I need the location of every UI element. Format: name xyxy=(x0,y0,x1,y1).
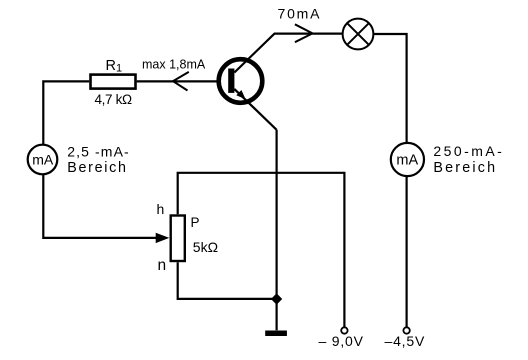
svg-text:4,7 kΩ: 4,7 kΩ xyxy=(95,92,133,107)
svg-text:5kΩ: 5kΩ xyxy=(193,239,218,255)
svg-text:max 1,8mA: max 1,8mA xyxy=(142,57,206,71)
svg-text:Bereich: Bereich xyxy=(67,160,127,176)
svg-text:P: P xyxy=(191,215,200,230)
svg-text:250-mA-: 250-mA- xyxy=(433,143,504,159)
svg-text:R1: R1 xyxy=(106,58,123,75)
svg-text:– 9,0V: – 9,0V xyxy=(319,333,364,349)
svg-text:–4,5V: –4,5V xyxy=(385,333,426,349)
svg-text:mA: mA xyxy=(32,151,54,167)
svg-text:n: n xyxy=(158,257,167,274)
svg-text:70mA: 70mA xyxy=(278,6,322,22)
svg-text:Bereich: Bereich xyxy=(433,160,497,176)
svg-text:h: h xyxy=(157,201,165,217)
svg-text:2,5 -mA-: 2,5 -mA- xyxy=(67,143,129,159)
svg-text:mA: mA xyxy=(396,153,418,169)
